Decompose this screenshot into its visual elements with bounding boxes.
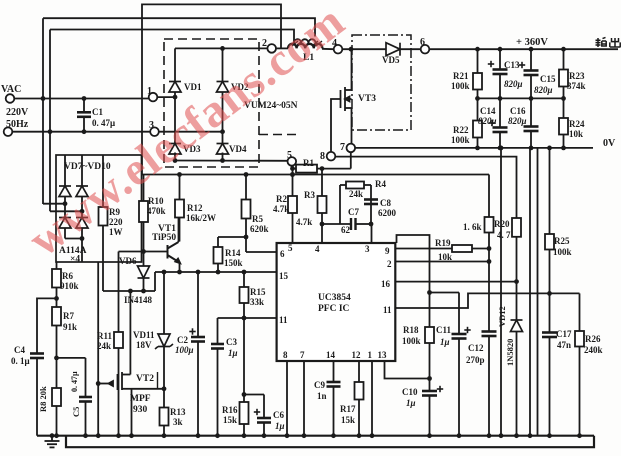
svg-text:6: 6 <box>420 37 425 48</box>
svg-text:R1: R1 <box>303 158 314 168</box>
wire pin14 <box>333 361 335 382</box>
svg-text:C13: C13 <box>504 60 520 70</box>
capacitor C8 <box>364 200 378 205</box>
diode VD4 <box>217 144 229 155</box>
wire pin11 row left <box>218 317 277 319</box>
svg-text:0. 47μ: 0. 47μ <box>92 118 115 128</box>
svg-text:8: 8 <box>283 350 288 360</box>
svg-text:R10: R10 <box>148 196 164 206</box>
resistor R4 <box>340 184 346 186</box>
svg-text:R11: R11 <box>97 331 113 341</box>
diode VD3 <box>169 144 181 155</box>
dashed stub right of module <box>259 134 299 136</box>
wire ret-A <box>500 148 502 436</box>
wire pin1 to VD1/VD3 column <box>157 96 175 98</box>
svg-text:1. 6k: 1. 6k <box>463 222 482 232</box>
svg-text:C17: C17 <box>556 329 572 339</box>
svg-text:1: 1 <box>368 350 373 360</box>
node VT2 source <box>162 386 167 391</box>
svg-text:10k: 10k <box>569 129 583 139</box>
wire +360V rail <box>429 48 618 50</box>
svg-text:R5: R5 <box>252 214 263 224</box>
svg-text:100k: 100k <box>451 81 470 91</box>
svg-text:R12: R12 <box>187 203 203 213</box>
svg-text:47n: 47n <box>557 340 571 350</box>
svg-text:C9: C9 <box>314 380 325 390</box>
node C1 top <box>82 96 87 101</box>
wire pin3 to VD2/VD4 column <box>159 131 223 133</box>
resistor R5 <box>244 172 249 177</box>
svg-text:R23: R23 <box>569 71 585 81</box>
svg-text:R21: R21 <box>453 71 469 81</box>
svg-text:24k: 24k <box>349 189 363 199</box>
wire R5 to R14 <box>218 236 246 238</box>
svg-text:+ 360V: + 360V <box>516 37 548 48</box>
node aux-B on VAC-N <box>48 129 53 134</box>
terminal 1 <box>149 93 158 102</box>
svg-text:820μ: 820μ <box>534 85 553 95</box>
node aux-A on VAC-L <box>41 96 46 101</box>
svg-text:C6: C6 <box>273 410 284 420</box>
svg-text:374k: 374k <box>567 81 586 91</box>
capacitor C10 <box>422 391 437 396</box>
aux bridge box A114A <box>56 155 142 262</box>
svg-text:100k: 100k <box>553 247 572 257</box>
wire VD2 column <box>222 48 224 81</box>
svg-text:C11: C11 <box>436 325 452 335</box>
svg-text:13: 13 <box>378 350 388 360</box>
node R6/R7 <box>54 296 59 301</box>
wire VAC-N to bridge pin3 <box>12 131 150 133</box>
resistor R17 <box>355 382 364 400</box>
wire aux-B into bridge <box>50 210 82 212</box>
wire VD5 to terminal 6 <box>400 48 421 50</box>
wire VD1 column <box>174 48 176 81</box>
capacitor C16 <box>530 98 532 126</box>
node R7/C5 <box>54 356 59 361</box>
resistor R13 <box>163 389 165 408</box>
resistor R9 <box>102 155 104 207</box>
resistor R2 <box>290 172 295 177</box>
svg-text:MPF: MPF <box>130 394 151 404</box>
svg-text:R16: R16 <box>222 405 238 415</box>
svg-text:R24: R24 <box>569 119 585 129</box>
resistor 1.6k <box>488 175 490 218</box>
wire terminal2 to L1 <box>276 47 288 49</box>
capacitor C11 <box>452 334 467 339</box>
node C1 bottom <box>82 129 87 134</box>
module box VUM24~05N (dashed) <box>164 39 259 167</box>
svg-text:3k: 3k <box>173 417 183 427</box>
svg-text:VT2: VT2 <box>136 374 154 384</box>
svg-text:100μ: 100μ <box>175 345 194 355</box>
svg-text:11: 11 <box>383 305 392 315</box>
svg-text:R18: R18 <box>403 325 419 335</box>
svg-text:8: 8 <box>320 151 325 162</box>
resistor R23 <box>563 49 565 69</box>
svg-text:VT3: VT3 <box>358 94 376 104</box>
capacitor C6 <box>257 418 271 423</box>
svg-text:820μ: 820μ <box>508 116 527 126</box>
svg-text:0V: 0V <box>603 138 616 149</box>
wire pin11 row right <box>395 293 579 308</box>
capacitor C3 <box>217 318 219 344</box>
svg-text:R14: R14 <box>225 248 241 258</box>
svg-text:VD5: VD5 <box>382 55 400 65</box>
terminal VAC-N <box>4 127 13 136</box>
capacitor C17 <box>542 333 557 338</box>
svg-text:VD6: VD6 <box>119 256 137 266</box>
diode VD10 <box>81 197 83 218</box>
wire aux-B top <box>50 30 294 44</box>
node ground <box>50 433 55 438</box>
wire bridge - bus <box>175 160 288 162</box>
capacitor C2 <box>197 272 199 337</box>
svg-text:0. 47μ: 0. 47μ <box>70 371 79 392</box>
svg-text:PFC IC: PFC IC <box>318 304 350 314</box>
diode VD7 <box>64 155 66 186</box>
wire aux-A top <box>43 18 315 36</box>
svg-text:R15: R15 <box>250 287 266 297</box>
VT3 dash-dot box <box>352 35 411 130</box>
wire terminal4 to VD5 <box>342 48 386 50</box>
resistor R20 <box>512 218 521 237</box>
svg-text:16k/2W: 16k/2W <box>186 213 216 223</box>
svg-text:6200: 6200 <box>378 208 397 218</box>
wire ret-C <box>537 148 539 436</box>
svg-text:1W: 1W <box>109 227 123 237</box>
wire bridge + bus <box>175 47 267 49</box>
svg-text:150k: 150k <box>224 258 243 268</box>
svg-text:C14: C14 <box>480 106 496 116</box>
svg-text:10k: 10k <box>438 252 452 262</box>
wire pin8 <box>286 361 288 436</box>
svg-text:820μ: 820μ <box>478 116 497 126</box>
svg-text:3: 3 <box>365 244 370 254</box>
svg-text:16: 16 <box>381 279 391 289</box>
svg-text:R17: R17 <box>340 404 356 414</box>
resistor R19 <box>452 245 472 252</box>
svg-text:15k: 15k <box>341 415 355 425</box>
svg-text:R20: R20 <box>494 219 510 229</box>
node R18 top <box>427 290 432 295</box>
resistor R1 <box>290 166 295 171</box>
svg-text:R19: R19 <box>435 238 451 248</box>
terminal 6 <box>421 45 430 54</box>
svg-text:R25: R25 <box>554 236 570 246</box>
terminal 2 <box>267 44 276 53</box>
node VT3 drain <box>349 47 354 52</box>
svg-text:R4: R4 <box>375 179 386 189</box>
svg-text:12: 12 <box>352 350 362 360</box>
svg-text:4. 7: 4. 7 <box>497 230 511 240</box>
svg-text:R8 20k: R8 20k <box>38 386 48 412</box>
svg-text:18V: 18V <box>136 340 152 350</box>
wire VT2 drain up <box>129 291 131 375</box>
svg-text:2: 2 <box>387 259 392 269</box>
zener VD11 <box>163 272 165 334</box>
wire pin2 row <box>395 261 489 263</box>
svg-text:11: 11 <box>279 315 288 325</box>
wire VT3 gate from terminal 8 <box>331 99 341 152</box>
svg-text:VD12: VD12 <box>497 306 507 327</box>
diode VD1 <box>169 82 181 93</box>
wire L1 to terminal 4 <box>322 48 334 50</box>
wire aux-A vertical x43 <box>42 18 44 204</box>
wire Vcc row <box>155 271 277 273</box>
svg-text:C3: C3 <box>226 337 237 347</box>
transistor VT2 (MOSFET) <box>109 372 132 390</box>
wire C5 stub <box>57 357 86 359</box>
wire pin6 <box>246 251 277 253</box>
wire VAC-L to bridge pin1 <box>14 98 148 100</box>
resistor R21 <box>477 49 479 73</box>
resistor R3 <box>321 169 323 196</box>
resistor R10 <box>143 175 145 202</box>
wire pin12 <box>358 361 360 382</box>
capacitor C4 <box>30 354 44 359</box>
svg-text:1μ: 1μ <box>228 348 238 358</box>
svg-text:910k: 910k <box>60 281 79 291</box>
svg-text:C12: C12 <box>468 343 484 353</box>
wire C6 stub <box>244 394 264 396</box>
wire outer bottom <box>66 436 594 448</box>
resistor R15 <box>243 272 245 287</box>
diode VD6 1N4148 <box>143 252 145 267</box>
capacitor C9 <box>327 382 341 387</box>
wire pin1 <box>371 361 373 436</box>
resistor R26 <box>579 293 581 331</box>
svg-text:C2: C2 <box>177 335 188 345</box>
diode VD12 1N5820 <box>511 320 523 332</box>
svg-text:5: 5 <box>288 243 293 253</box>
capacitor C14 <box>499 98 501 127</box>
node VD2 top <box>220 46 225 51</box>
svg-text:820μ: 820μ <box>504 79 523 89</box>
svg-text:C1: C1 <box>92 107 103 117</box>
capacitor C12 <box>482 332 497 337</box>
wire aux minus vertical <box>97 262 99 436</box>
svg-text:470k: 470k <box>147 206 166 216</box>
svg-text:270p: 270p <box>466 355 485 365</box>
svg-text:C16: C16 <box>510 106 526 116</box>
capacitor C13 <box>499 49 501 69</box>
svg-text:R6: R6 <box>62 271 73 281</box>
svg-text:C4: C4 <box>14 345 25 355</box>
terminal 5 <box>288 157 297 166</box>
svg-text:33k: 33k <box>250 297 264 307</box>
svg-text:C15: C15 <box>540 74 556 84</box>
svg-text:15: 15 <box>279 271 289 281</box>
svg-text:4.7k: 4.7k <box>296 217 312 227</box>
svg-text:100k: 100k <box>451 135 470 145</box>
terminal 7 <box>347 144 356 153</box>
wire VT1 emitter <box>179 263 181 273</box>
svg-text:0. 1μ: 0. 1μ <box>11 356 30 366</box>
svg-text:7: 7 <box>300 350 305 360</box>
svg-text:9: 9 <box>385 246 390 256</box>
op-amp U1 UC3854 PFC IC <box>277 243 396 361</box>
wire outer frame top <box>142 4 281 174</box>
wire bottom rail <box>37 435 594 437</box>
transistor VT3 (MOSFET) <box>341 87 352 111</box>
node R1-net at terminal7 <box>350 152 352 168</box>
wire VT3 source to terminal 7 <box>351 108 353 144</box>
wire pin16 row <box>395 281 516 283</box>
svg-text:1n: 1n <box>317 391 327 401</box>
svg-text:14: 14 <box>326 350 336 360</box>
svg-text:VAC: VAC <box>1 84 21 95</box>
svg-text:×4: ×4 <box>70 255 80 265</box>
wire VT2 gate <box>98 383 113 385</box>
wire terminal5 lead <box>291 166 293 169</box>
svg-text:91k: 91k <box>63 322 77 332</box>
capacitor C5 <box>79 397 92 402</box>
svg-text:7: 7 <box>340 142 345 153</box>
resistor R12 <box>177 172 182 177</box>
svg-text:15k: 15k <box>223 415 237 425</box>
svg-text:UC3854: UC3854 <box>318 293 351 303</box>
resistor R25 <box>549 148 551 234</box>
svg-text:IN4148: IN4148 <box>124 295 153 305</box>
svg-text:4.7k: 4.7k <box>273 204 289 214</box>
svg-text:6: 6 <box>280 249 285 259</box>
transistor VT1 (BJT) <box>168 242 181 263</box>
wire VT1 collector <box>178 218 180 243</box>
svg-text:930: 930 <box>133 405 148 415</box>
wire VT2 source down <box>131 389 133 436</box>
svg-text:1μ: 1μ <box>275 421 285 431</box>
terminal VAC-L <box>6 94 15 103</box>
svg-text:C10: C10 <box>402 387 418 397</box>
diode VD9 <box>64 197 66 218</box>
svg-text:5: 5 <box>287 150 292 161</box>
resistor R7 <box>52 307 61 326</box>
svg-text:C8: C8 <box>380 198 391 208</box>
terminal 8 <box>327 152 336 161</box>
wire R11 column <box>118 252 120 333</box>
svg-text:1μ: 1μ <box>406 398 416 408</box>
resistor R6 <box>56 262 58 269</box>
compensation loop right <box>370 185 372 224</box>
terminal 4 <box>334 45 343 54</box>
svg-text:R3: R3 <box>304 190 315 200</box>
resistor R8 <box>52 388 61 406</box>
diode VD8 <box>81 155 83 186</box>
resistor R24 <box>563 98 565 118</box>
label output (Chinese) <box>596 37 621 47</box>
svg-text:620k: 620k <box>250 224 269 234</box>
wire pin3 lead <box>371 224 373 243</box>
svg-text:1N5820: 1N5820 <box>505 339 515 366</box>
wire C4 branch <box>37 298 57 353</box>
wire VT3 drain <box>351 49 353 90</box>
wire R15 to R16 <box>243 318 245 402</box>
wire pin9 row <box>395 248 452 250</box>
ground <box>45 436 60 448</box>
capacitor C1 <box>83 99 85 113</box>
wire C11 stub <box>430 292 460 294</box>
svg-text:1: 1 <box>147 86 152 97</box>
wire pin9 top jog <box>397 235 430 327</box>
svg-text:R2: R2 <box>276 194 287 204</box>
wire mid rail <box>478 97 564 99</box>
svg-text:C5: C5 <box>71 407 81 417</box>
svg-text:1μ: 1μ <box>440 337 450 347</box>
wire aux-A into bridge <box>43 203 65 205</box>
wire 0V rail <box>355 147 593 149</box>
svg-text:R7: R7 <box>63 311 74 321</box>
svg-text:VD11: VD11 <box>133 330 155 340</box>
resistor R16 <box>240 402 249 424</box>
svg-text:R22: R22 <box>453 125 469 135</box>
inductor L1 <box>288 44 322 49</box>
wire pin7 <box>303 361 305 436</box>
wire VT2 source right <box>132 388 165 390</box>
wire aux out <box>103 290 155 292</box>
resistor R22 <box>477 98 479 120</box>
wire VT1 base <box>119 251 168 253</box>
svg-text:R13: R13 <box>170 407 186 417</box>
wire aux bridge bottom <box>65 238 82 240</box>
wire aux-B vertical x50 <box>49 30 51 212</box>
svg-text:50Hz: 50Hz <box>6 119 29 130</box>
wire W1 input-sense <box>142 174 489 176</box>
resistor R11 <box>114 332 123 348</box>
svg-text:100k: 100k <box>402 336 421 346</box>
svg-text:240k: 240k <box>584 345 603 355</box>
diode VD2 <box>217 82 229 93</box>
compensation loop left <box>339 185 341 224</box>
wire ret-B <box>529 148 531 436</box>
svg-text:62: 62 <box>341 225 351 235</box>
svg-text:24k: 24k <box>97 341 111 351</box>
resistor R18 <box>425 327 434 343</box>
wire terminal8 gate-drive <box>335 157 516 218</box>
capacitor C15 <box>530 49 532 70</box>
wire pin13 <box>385 361 430 379</box>
terminal 3 <box>150 127 159 136</box>
svg-text:TiP50: TiP50 <box>152 233 176 243</box>
svg-text:C7: C7 <box>348 207 359 217</box>
svg-text:R26: R26 <box>585 334 601 344</box>
svg-text:4: 4 <box>315 244 320 254</box>
resistor R14 <box>217 237 219 247</box>
capacitor C7 <box>322 223 351 225</box>
diode VD5 <box>386 43 400 56</box>
node pin13/C10 <box>427 376 432 381</box>
svg-text:220V: 220V <box>6 107 29 118</box>
svg-text:VD4: VD4 <box>229 144 247 154</box>
